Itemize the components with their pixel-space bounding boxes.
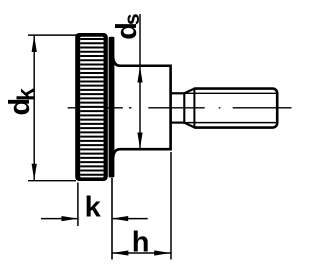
ds arrow down <box>137 133 142 149</box>
svg-text:h: h <box>132 227 150 259</box>
k / h extension line shared <box>111 178 113 260</box>
thread runout boundary <box>183 92 185 124</box>
h dimension line <box>112 252 171 254</box>
ds dimension line <box>139 14 141 148</box>
h arrow right <box>154 250 170 255</box>
threaded shank outline <box>194 89 277 128</box>
thread root line top <box>184 92 276 94</box>
k arrow left <box>62 216 78 221</box>
undercut neck top <box>171 92 185 94</box>
k extension line left <box>77 183 79 227</box>
knurling lines <box>80 39 104 175</box>
dk arrow down <box>32 164 37 181</box>
svg-text:k: k <box>85 192 102 224</box>
h extension line right <box>170 152 172 260</box>
ds arrow up <box>137 66 142 82</box>
thread start line <box>193 88 195 129</box>
k arrow right <box>112 216 128 221</box>
undercut neck bottom <box>171 121 185 123</box>
runout chamfer top <box>184 89 194 94</box>
h arrow left <box>112 250 128 255</box>
dk extension line top <box>28 34 76 36</box>
thread root line bottom <box>184 122 276 124</box>
k dimension line left <box>41 218 78 220</box>
runout chamfer bottom <box>184 123 194 128</box>
shoulder body outline <box>113 58 170 158</box>
centerline <box>68 107 292 109</box>
knurled head outline <box>75 33 108 181</box>
head bearing face band <box>109 37 115 178</box>
dk extension line bottom <box>28 180 76 182</box>
dk dimension line <box>33 35 35 181</box>
knurl right boundary bar <box>104 37 108 178</box>
dk arrow up <box>32 35 37 52</box>
k dimension line right <box>112 218 148 220</box>
